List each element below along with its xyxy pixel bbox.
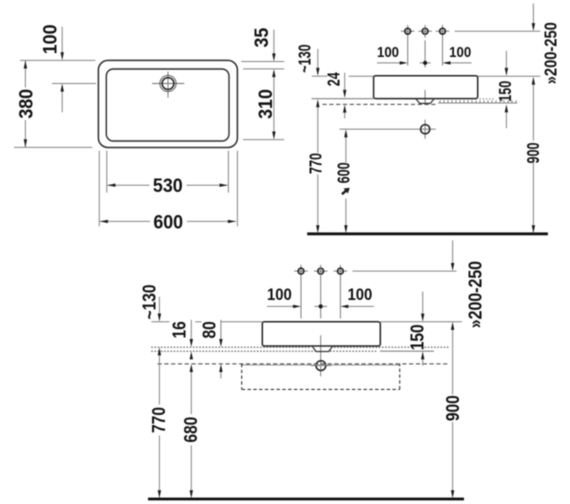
dotted counter line right of basin (top view) — [480, 98, 494, 100]
svg-text:24: 24 — [325, 72, 345, 86]
dimension ~130 (top view) — [295, 44, 319, 75]
extension line inner-left below (plan) — [106, 151, 108, 193]
extension line outer-right below (plan) — [236, 151, 238, 227]
svg-text:80: 80 — [199, 321, 220, 338]
svg-text:35: 35 — [251, 28, 273, 48]
faucet hole outer ring (plan) — [160, 75, 176, 91]
counter solid segment right (bottom view) — [380, 350, 434, 352]
dimension 80 console depth (bottom view) — [199, 320, 222, 379]
rim level line (bottom view) — [151, 321, 462, 323]
dimension 530 inner width (plan) — [107, 175, 227, 197]
extension line basin rear edge left (plan) — [20, 59, 95, 61]
svg-text:900: 900 — [524, 142, 544, 163]
extension line basin front edge left (plan) — [14, 146, 92, 148]
basin body (top view) — [374, 76, 478, 99]
floor line (bottom view) — [148, 498, 464, 501]
hole level line to right reference (bottom view) — [353, 270, 457, 272]
svg-text:380: 380 — [15, 89, 37, 119]
faucet hole inner ring (plan) — [162, 78, 174, 90]
dimension 200-250 tap above rim (bottom view) — [451, 240, 486, 328]
dimension 600 drain height (top view) — [334, 129, 354, 233]
svg-text:310: 310 — [255, 89, 277, 119]
basin inner bowl outline (plan) — [106, 69, 229, 141]
faucet hole circles (top view) — [401, 25, 449, 66]
dimension 100 100 tap spacing (bottom view) — [267, 287, 374, 309]
dimension 35 rim width (plan) — [251, 28, 276, 62]
drain outlet circle (bottom view) — [311, 361, 332, 371]
faucet hole crosshair (plan) — [152, 72, 184, 98]
svg-text:600: 600 — [153, 211, 183, 233]
svg-text:100: 100 — [347, 287, 372, 305]
dimension 770 counter height (bottom view) — [149, 347, 170, 498]
dimension 770 counter height (top view) — [306, 99, 326, 233]
centre axis line (bottom view) — [320, 265, 322, 376]
dimension 100 rear-to-tap (plan) — [39, 25, 64, 113]
basin outer outline (plan) — [98, 60, 237, 147]
svg-text:770: 770 — [306, 153, 326, 174]
svg-text:100: 100 — [377, 44, 399, 61]
hidden counter edge dashed (top view) — [323, 103, 438, 105]
counter cut line with hatching (top view) — [438, 100, 517, 103]
dimension ~130 (bottom view) — [139, 285, 161, 322]
extension line outer-left below (plan) — [98, 151, 100, 227]
rim level line (top view) — [312, 75, 540, 77]
dimension 900 rim height (top view) — [524, 77, 544, 234]
floor line (top view) — [307, 232, 548, 235]
svg-text:100: 100 — [39, 25, 61, 55]
svg-text:16: 16 — [169, 321, 190, 338]
svg-text:530: 530 — [153, 175, 183, 197]
svg-text:600: 600 — [334, 162, 354, 183]
console bottom dashed line (bottom view) — [158, 363, 450, 365]
counter dotted line lower (bottom view) — [151, 350, 378, 352]
dimension 600 outer width (plan) — [100, 211, 236, 233]
extension line faucet centre to left (plan) — [52, 83, 96, 85]
svg-text:150: 150 — [496, 81, 516, 102]
dimension 310 inner depth (plan) — [255, 69, 277, 139]
svg-text:770: 770 — [149, 407, 170, 433]
svg-text:~130: ~130 — [139, 285, 160, 320]
dimension 150 basin height (bottom view) — [407, 292, 428, 366]
extension line inner-right below (plan) — [227, 151, 229, 193]
svg-text:680: 680 — [181, 417, 202, 443]
dimension 16 panel thickness (bottom view) — [169, 320, 193, 360]
basin body (bottom view) — [262, 322, 380, 346]
dimension 200-250 tap above rim (top view) — [532, 4, 561, 85]
svg-text:100: 100 — [267, 287, 292, 305]
extension lines right of basin (plan) — [241, 62, 284, 140]
svg-text:100: 100 — [449, 44, 471, 61]
hole level line to right reference (top view) — [455, 30, 541, 32]
drain level line (top view) — [340, 128, 436, 130]
dimension 680 console height (bottom view) — [181, 364, 202, 498]
svg-text:900: 900 — [443, 395, 464, 421]
svg-text:»200-250: »200-250 — [542, 22, 561, 84]
console top edge line (bottom view) — [242, 364, 400, 366]
dimension 24 (top view) — [325, 72, 347, 119]
counter dotted line upper (bottom view) — [151, 346, 449, 348]
centre axis line (top view) — [424, 25, 426, 139]
drain boss under basin (bottom view) — [312, 346, 333, 352]
svg-text:~130: ~130 — [295, 44, 315, 72]
dimension 150 basin height (top view) — [496, 51, 516, 128]
console hidden outline dashed rect (bottom view) — [242, 364, 400, 390]
dimension 100 100 tap spacing (top view) — [377, 44, 472, 65]
svg-text:»200-250: »200-250 — [464, 261, 485, 328]
drain outlet circle (top view) — [421, 125, 430, 134]
dimension 900 rim height (bottom view) — [443, 322, 464, 498]
counter top line left (top view) — [312, 98, 374, 100]
faucet hole circles (bottom view) — [294, 265, 347, 319]
dimension 380 basin depth (plan) — [15, 61, 37, 148]
svg-text:150: 150 — [407, 324, 428, 350]
drain boss under basin (top view) — [416, 99, 435, 104]
